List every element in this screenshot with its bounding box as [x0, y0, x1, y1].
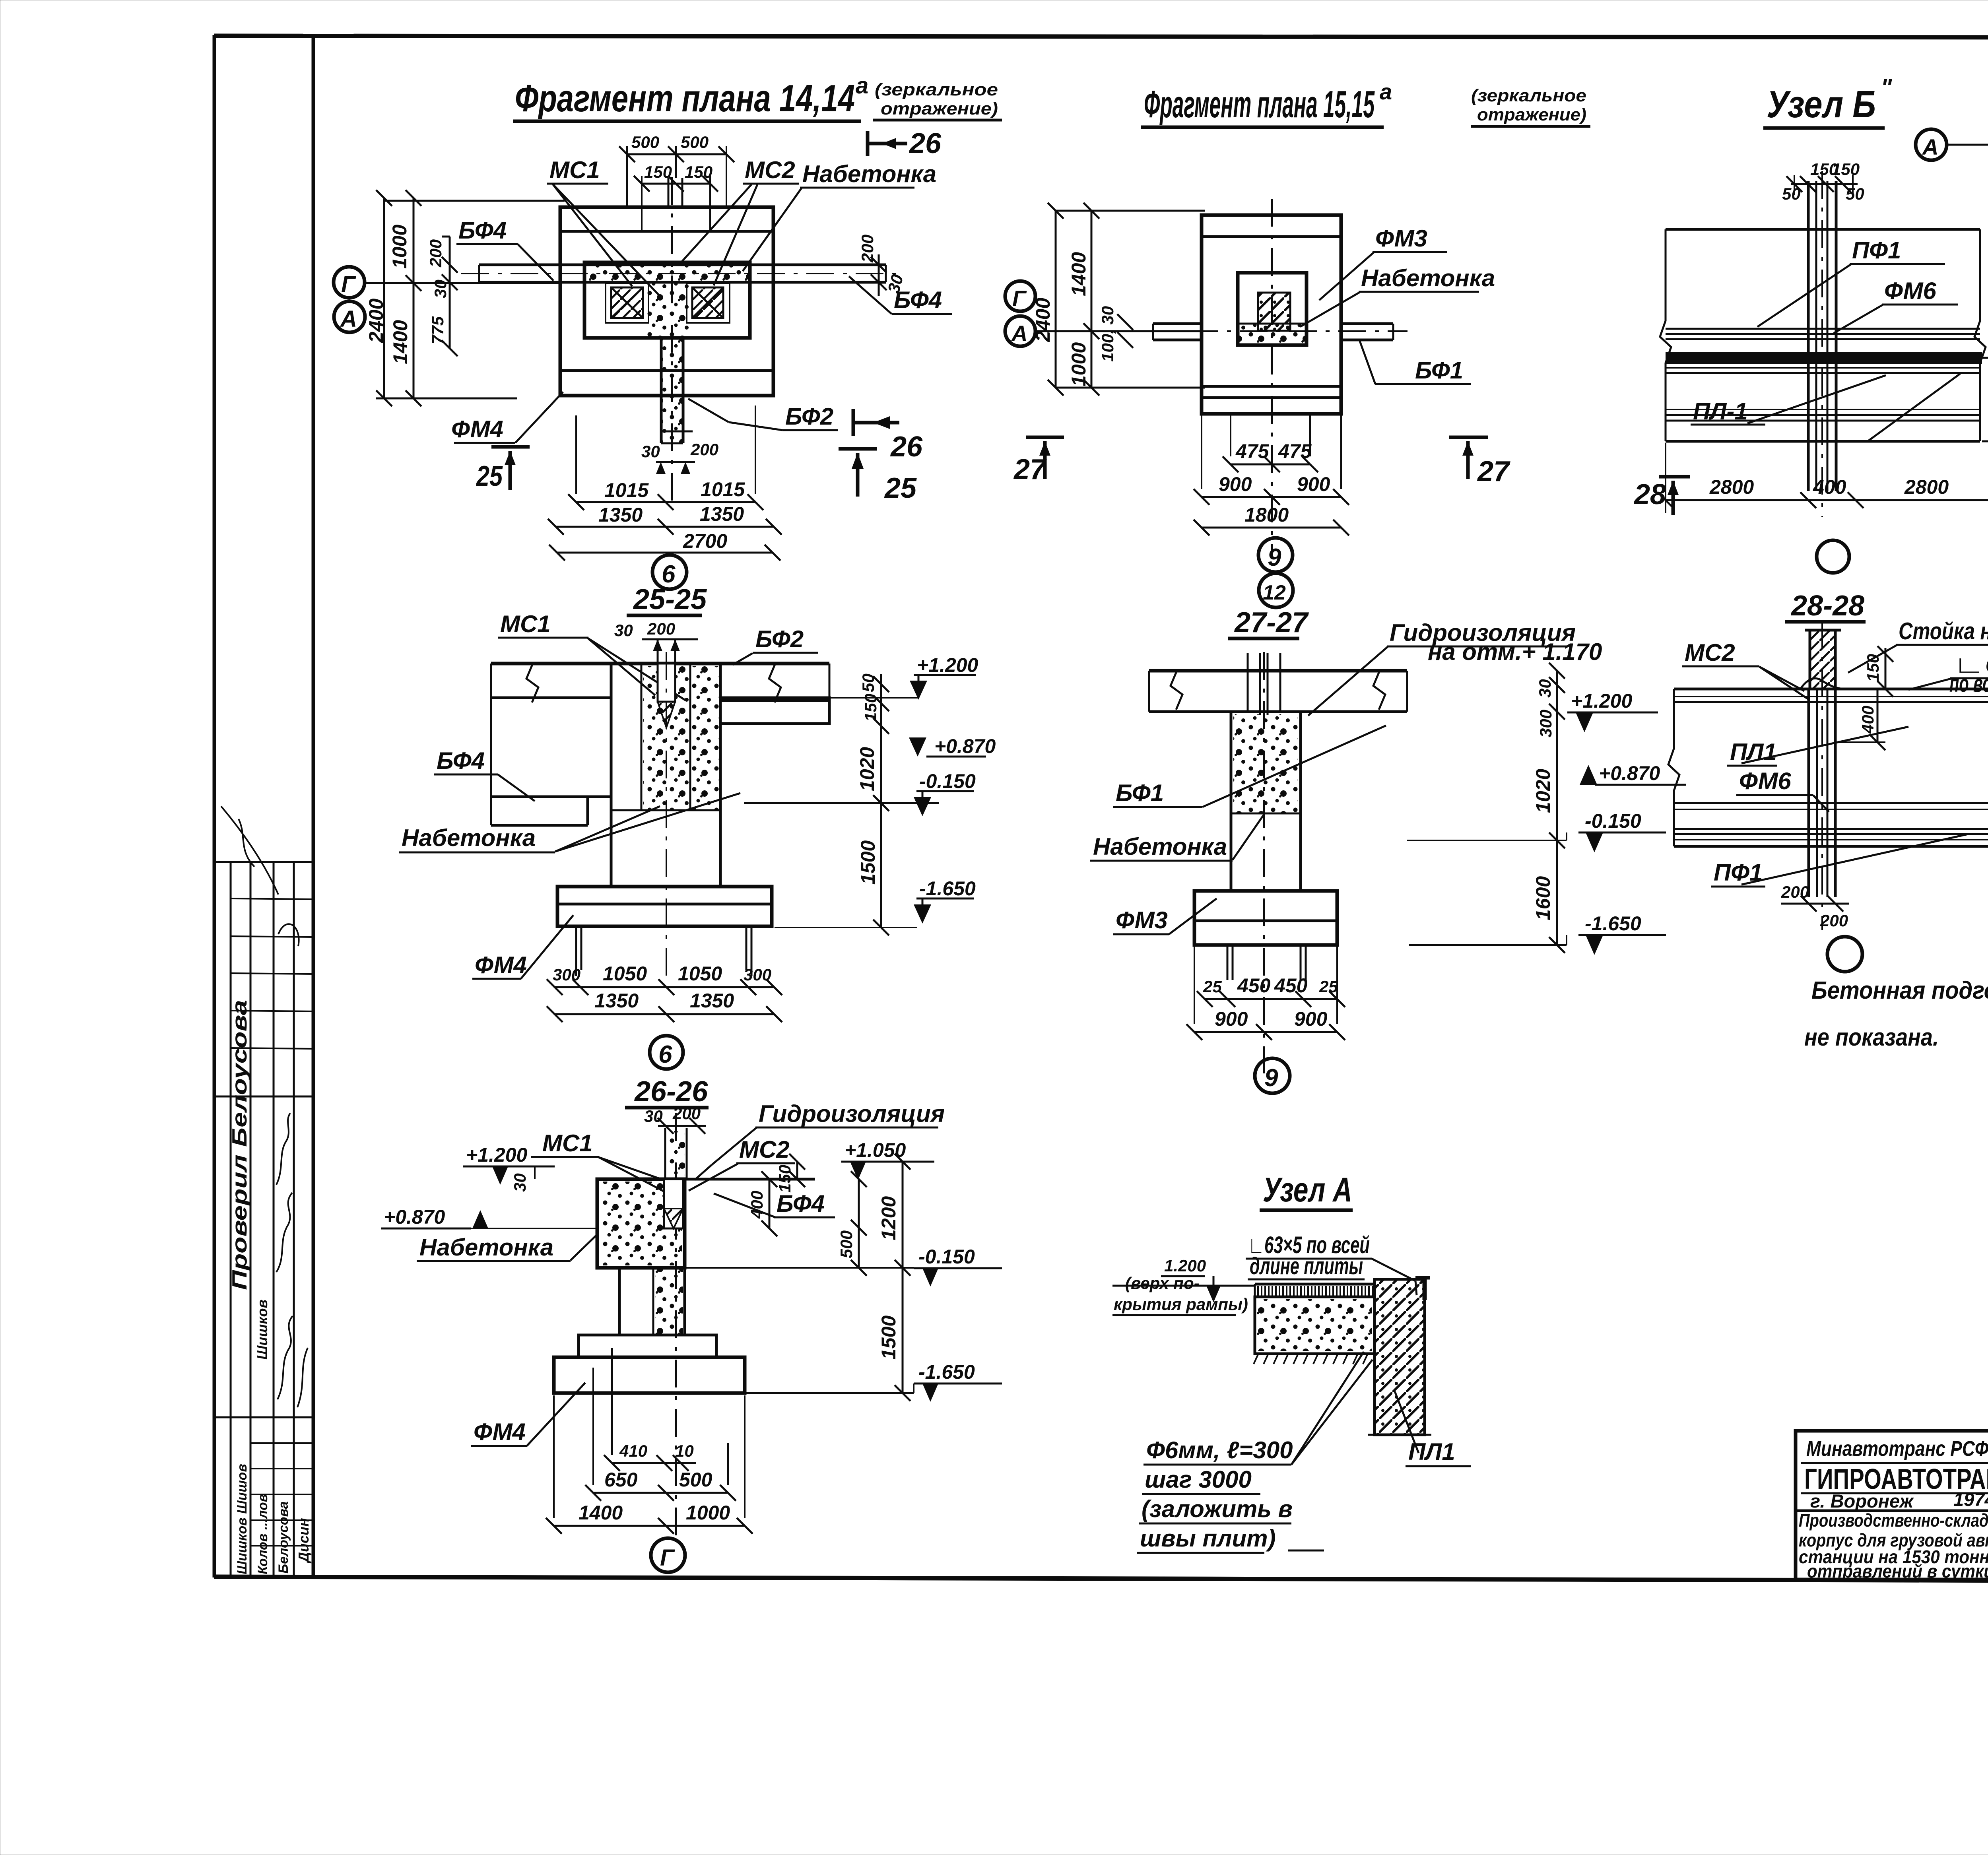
signatures squiggles — [276, 1113, 290, 1185]
svg-text:450: 450 — [1274, 974, 1308, 997]
svg-text:БФ2: БФ2 — [785, 403, 833, 430]
svg-text:ПЛ-1: ПЛ-1 — [1693, 398, 1748, 425]
svg-text:(заложить в: (заложить в — [1142, 1496, 1293, 1522]
frame top line — [214, 36, 1988, 38]
svg-text:1350: 1350 — [690, 990, 734, 1012]
svg-text:МС1: МС1 — [542, 1130, 593, 1156]
svg-text:30: 30 — [511, 1173, 529, 1192]
small dims near post — [1885, 648, 1887, 689]
svg-text:+1.200: +1.200 — [1571, 690, 1633, 712]
svg-text:1020: 1020 — [856, 747, 878, 791]
svg-text:1000: 1000 — [388, 225, 411, 269]
svg-text:БФ4: БФ4 — [458, 217, 507, 244]
section markers 27 — [1026, 436, 1064, 439]
right dim chains — [796, 1162, 798, 1179]
svg-text:25-25: 25-25 — [633, 584, 707, 615]
inner recess rect — [584, 262, 750, 338]
svg-text:500: 500 — [631, 133, 659, 151]
bottom dims — [555, 986, 774, 988]
main block — [597, 1178, 815, 1181]
right wall ПЛ1 — [1375, 1279, 1425, 1435]
svg-text:27-27: 27-27 — [1234, 607, 1309, 638]
svg-text:1400: 1400 — [1068, 252, 1090, 296]
svg-text:900: 900 — [1215, 1008, 1248, 1030]
svg-text:300: 300 — [553, 965, 580, 984]
svg-text:-0.150: -0.150 — [1585, 810, 1641, 832]
svg-text:9: 9 — [1268, 544, 1281, 571]
svg-text:150: 150 — [1832, 160, 1860, 179]
svg-text:200: 200 — [426, 239, 445, 268]
bottom dims 200/200 — [1781, 903, 1849, 905]
small left dims 200/30/775 — [449, 237, 451, 348]
svg-text:1500: 1500 — [857, 840, 879, 885]
svg-text:Набетонка: Набетонка — [802, 161, 936, 187]
bottom dims — [1205, 998, 1337, 1000]
svg-text:Дисин: Дисин — [295, 1518, 312, 1564]
concrete stipple T — [585, 264, 749, 283]
axis circle А — [1916, 129, 1947, 160]
bottom dims — [1666, 499, 1988, 501]
svg-text:50: 50 — [859, 673, 878, 692]
svg-text:-1.650: -1.650 — [1585, 912, 1641, 935]
svg-text:2400: 2400 — [365, 299, 387, 343]
svg-text:Колов ...лов: Колов ...лов — [255, 1494, 270, 1574]
svg-text:50: 50 — [1846, 184, 1864, 203]
svg-text:БФ2: БФ2 — [755, 626, 804, 652]
svg-text:1000: 1000 — [1068, 342, 1090, 386]
svg-text:900: 900 — [1294, 1008, 1328, 1030]
svg-text:(зеркальное: (зеркальное — [875, 80, 998, 99]
svg-text:Белоусова: Белоусова — [276, 1501, 291, 1574]
svg-text:1020: 1020 — [1532, 769, 1554, 813]
post (стойка) — [1810, 630, 1835, 689]
svg-text:25: 25 — [884, 472, 917, 504]
bottom dims — [612, 1462, 696, 1464]
svg-text:БФ4: БФ4 — [777, 1190, 825, 1217]
anchor channel in block — [664, 1179, 683, 1228]
plan outer slab rect — [560, 207, 773, 396]
column — [1807, 689, 1810, 897]
svg-text:50: 50 — [1782, 184, 1801, 203]
anchor pockets with hatch — [606, 283, 648, 323]
svg-text:2700: 2700 — [683, 530, 727, 552]
section marker 25 bottom-left — [491, 445, 530, 449]
pencil scrawl above table — [221, 806, 278, 895]
band rect — [1666, 228, 1980, 231]
svg-text:МС2: МС2 — [1685, 639, 1735, 666]
ground hatch below — [1254, 1354, 1368, 1364]
svg-text:26-26: 26-26 — [634, 1076, 708, 1108]
svg-text:27: 27 — [1013, 454, 1047, 485]
svg-text:Гидроизоляция: Гидроизоляция — [759, 1100, 945, 1127]
svg-text:+1.200: +1.200 — [917, 654, 978, 676]
svg-text:+1.200: +1.200 — [466, 1144, 528, 1166]
svg-text:1350: 1350 — [594, 990, 639, 1012]
slab band — [1674, 688, 1988, 691]
svg-text:не показана.: не показана. — [1804, 1024, 1939, 1051]
svg-text:ФМ4: ФМ4 — [451, 416, 503, 442]
corner angle — [1423, 1277, 1427, 1300]
svg-text:200: 200 — [1781, 883, 1809, 901]
svg-text:25: 25 — [1203, 977, 1222, 996]
svg-text:-0.150: -0.150 — [918, 1246, 975, 1268]
svg-text:27: 27 — [1477, 456, 1510, 487]
svg-text:1974г: 1974г — [1953, 1489, 1988, 1510]
hatched anchor block — [1258, 293, 1290, 331]
svg-text:150: 150 — [775, 1165, 794, 1193]
svg-text:А: А — [1922, 134, 1938, 159]
svg-text:1800: 1800 — [1244, 504, 1289, 526]
svg-text:+1.050: +1.050 — [845, 1139, 906, 1161]
column — [1230, 712, 1233, 891]
svg-text:Г: Г — [341, 272, 356, 297]
svg-text:отражение): отражение) — [1477, 105, 1586, 124]
svg-text:150: 150 — [1864, 654, 1882, 682]
svg-text:МС2: МС2 — [739, 1136, 790, 1163]
svg-text:ФМ6: ФМ6 — [1884, 277, 1937, 304]
svg-text:30: 30 — [431, 279, 450, 298]
svg-text:200: 200 — [858, 235, 877, 263]
svg-text:на отм.+ 1.170: на отм.+ 1.170 — [1428, 638, 1602, 665]
inner recess — [1238, 273, 1307, 345]
svg-text:1500: 1500 — [878, 1316, 900, 1360]
svg-text:ПФ1: ПФ1 — [1852, 237, 1901, 264]
frame left outer line — [213, 35, 216, 1578]
svg-text:26: 26 — [890, 431, 923, 463]
bottom dim rows — [576, 501, 755, 503]
svg-text:2800: 2800 — [1904, 476, 1949, 498]
slab — [1149, 669, 1407, 673]
axis circle 6 — [652, 555, 687, 589]
svg-text:-1.650: -1.650 — [918, 1361, 975, 1383]
svg-text:410: 410 — [619, 1442, 647, 1460]
svg-text:150: 150 — [644, 163, 672, 181]
svg-text:Бетонная подготовка под фун: Бетонная подготовка под фундаменты услов… — [1811, 977, 1988, 1004]
svg-text:900: 900 — [1297, 473, 1330, 495]
stem bottom dims 30/200 — [656, 461, 695, 463]
bottom circle — [1827, 937, 1862, 972]
svg-text:1200: 1200 — [878, 1196, 900, 1240]
top anchor stub — [668, 178, 670, 207]
svg-text:500: 500 — [679, 1469, 712, 1491]
frame inner margin line — [312, 37, 315, 1578]
svg-text:1350: 1350 — [700, 503, 744, 525]
right vertical dim chain — [880, 674, 882, 927]
svg-text:300: 300 — [744, 965, 771, 984]
bottom empty circle — [1817, 540, 1849, 573]
svg-text:отправлений в сутки: отправлений в сутки — [1807, 1561, 1988, 1581]
svg-text:25: 25 — [476, 460, 503, 492]
svg-text:ФМ6: ФМ6 — [1739, 768, 1792, 794]
frame bottom line — [214, 1577, 1988, 1581]
svg-text:2400: 2400 — [1032, 298, 1054, 342]
svg-text:200: 200 — [690, 440, 718, 459]
top dims — [1791, 183, 1858, 185]
section marker 25 bottom-right — [839, 447, 877, 451]
svg-text:Набетонка: Набетонка — [1361, 265, 1495, 291]
top dims 500/500 — [627, 153, 726, 155]
svg-text:30: 30 — [1536, 679, 1554, 698]
svg-text:А: А — [1011, 321, 1027, 346]
svg-text:Минавтотранс РСФСР: Минавтотранс РСФСР — [1806, 1437, 1988, 1461]
svg-text:1015: 1015 — [604, 479, 649, 501]
svg-text:500: 500 — [681, 133, 709, 151]
svg-text:30: 30 — [641, 442, 660, 461]
svg-text:БФ4: БФ4 — [437, 747, 485, 774]
svg-text:12: 12 — [1263, 581, 1286, 604]
stem БФ2 below — [660, 338, 663, 443]
svg-text:Проверил Белоусова: Проверил Белоусова — [228, 1000, 251, 1290]
svg-text:крытия рампы): крытия рампы) — [1114, 1295, 1248, 1314]
slab with vertical hatch screed — [1255, 1283, 1375, 1286]
left signature table — [214, 806, 313, 1577]
svg-text:БФ1: БФ1 — [1415, 357, 1463, 384]
left dims — [1055, 211, 1057, 388]
anchor stub through slab — [1247, 653, 1249, 712]
beam БФ1 through — [1153, 322, 1202, 325]
svg-text:650: 650 — [604, 1469, 638, 1491]
svg-text:(верх по-: (верх по- — [1125, 1274, 1200, 1292]
axis circles 9 / 12 — [1258, 538, 1293, 572]
svg-text:10: 10 — [675, 1442, 694, 1460]
section marker 26 top — [866, 131, 870, 156]
svg-text:Шишков Шишов: Шишков Шишов — [235, 1464, 250, 1574]
svg-text:400: 400 — [747, 1191, 766, 1219]
svg-text:475: 475 — [1235, 440, 1270, 462]
axis circles — [1005, 281, 1035, 311]
concrete block — [1255, 1297, 1375, 1354]
plan rect — [1202, 215, 1341, 414]
svg-text:1015: 1015 — [701, 478, 745, 501]
anchor stub above — [664, 1128, 666, 1179]
svg-text:30: 30 — [614, 621, 633, 640]
svg-text:": " — [1881, 74, 1893, 101]
left dim chains — [383, 198, 385, 398]
svg-text:1.200: 1.200 — [1164, 1256, 1206, 1275]
svg-text:6: 6 — [658, 1041, 672, 1068]
column — [610, 664, 613, 887]
svg-text:Шишков: Шишков — [254, 1300, 270, 1360]
floor layers — [1666, 328, 1980, 330]
svg-text:1050: 1050 — [678, 962, 722, 985]
beam lines through (БФ4) — [479, 264, 886, 266]
svg-text:28-28: 28-28 — [1790, 590, 1864, 622]
svg-text:+0.870: +0.870 — [384, 1206, 445, 1228]
svg-text:900: 900 — [1219, 473, 1252, 495]
right dim chain — [1556, 671, 1558, 945]
svg-text:1000: 1000 — [686, 1502, 730, 1524]
svg-text:30: 30 — [644, 1107, 663, 1125]
page frame — [214, 35, 1988, 1581]
foundation — [1194, 891, 1337, 945]
dims 150/150 — [642, 183, 710, 185]
title block — [1796, 1431, 1988, 1582]
svg-text:ФМ4: ФМ4 — [474, 1418, 526, 1445]
svg-text:450: 450 — [1237, 974, 1271, 997]
svg-text:150: 150 — [685, 163, 712, 181]
svg-text:МС2: МС2 — [745, 157, 795, 183]
svg-text:а: а — [856, 73, 868, 99]
column verticals — [1807, 181, 1810, 491]
bottom dims — [1231, 464, 1310, 466]
centerlines — [671, 177, 673, 501]
svg-text:1400: 1400 — [579, 1502, 623, 1524]
svg-text:БФ1: БФ1 — [1116, 780, 1164, 806]
svg-text:Узел Б: Узел Б — [1767, 83, 1876, 126]
svg-text:150: 150 — [861, 694, 880, 722]
svg-text:МС1: МС1 — [549, 157, 600, 183]
28 markers — [1659, 475, 1690, 479]
svg-text:475: 475 — [1278, 440, 1312, 462]
dowels below — [1227, 945, 1229, 980]
stem below — [618, 1268, 621, 1335]
svg-text:Набетонка: Набетонка — [1093, 833, 1227, 860]
svg-text:1400: 1400 — [389, 320, 412, 364]
svg-text:2800: 2800 — [1709, 476, 1754, 498]
svg-text:ФМ3: ФМ3 — [1116, 907, 1168, 933]
svg-text:26: 26 — [909, 128, 942, 159]
svg-text:1600: 1600 — [1532, 876, 1554, 920]
svg-text:ФМ4: ФМ4 — [475, 952, 527, 978]
svg-text:Набетонка: Набетонка — [402, 825, 536, 851]
svg-text:Узел А: Узел А — [1263, 1171, 1352, 1209]
right БФ2 beam cut — [720, 698, 829, 724]
svg-text:А: А — [340, 306, 357, 332]
svg-text:(зеркальное: (зеркальное — [1471, 86, 1586, 105]
svg-text:25: 25 — [1319, 977, 1338, 996]
svg-text:9: 9 — [1264, 1064, 1278, 1092]
svg-text:длине плиты: длине плиты — [1250, 1253, 1363, 1279]
foundation steps — [579, 1335, 716, 1357]
svg-text:Фрагмент плана 15,15: Фрагмент плана 15,15 — [1144, 83, 1375, 126]
axis circles — [334, 267, 365, 298]
svg-text:+0.870: +0.870 — [934, 735, 996, 757]
svg-text:Г: Г — [660, 1545, 675, 1571]
svg-text:Ф6мм, ℓ=300: Ф6мм, ℓ=300 — [1146, 1437, 1293, 1463]
svg-text:ФМ3: ФМ3 — [1375, 225, 1427, 252]
svg-text:500: 500 — [837, 1230, 856, 1258]
right small dims 200/30 — [878, 254, 880, 296]
svg-text:швы плит): швы плит) — [1140, 1525, 1276, 1552]
svg-text:400: 400 — [1858, 706, 1877, 734]
anchor channel — [658, 664, 675, 702]
svg-text:Производственно-складской: Производственно-складской — [1799, 1510, 1988, 1531]
svg-text:Стойка навеса: Стойка навеса — [1899, 618, 1988, 644]
svg-text:200: 200 — [1820, 911, 1848, 930]
centerlines — [1141, 330, 1408, 332]
svg-text:400: 400 — [1813, 476, 1846, 498]
floor slab — [491, 662, 829, 666]
svg-text:1350: 1350 — [598, 504, 643, 526]
svg-text:Фрагмент плана 14,14: Фрагмент плана 14,14 — [515, 77, 855, 120]
svg-text:775: 775 — [428, 316, 447, 344]
svg-text:-0.150: -0.150 — [919, 770, 976, 792]
svg-text:по всей длине: по всей длине — [1949, 670, 1988, 697]
svg-text:200: 200 — [647, 619, 675, 638]
svg-text:а: а — [1380, 79, 1392, 104]
svg-text:МС1: МС1 — [500, 611, 551, 637]
svg-text:отражение): отражение) — [881, 99, 998, 118]
svg-text:г. Воронеж: г. Воронеж — [1810, 1490, 1914, 1512]
svg-text:шаг 3000: шаг 3000 — [1145, 1466, 1252, 1493]
svg-text:-1.650: -1.650 — [919, 877, 976, 900]
section marker 26 right — [852, 409, 855, 436]
svg-text:300: 300 — [1536, 710, 1555, 737]
svg-text:+0.870: +0.870 — [1599, 762, 1660, 784]
svg-text:100, 30: 100, 30 — [1098, 306, 1117, 362]
svg-text:28: 28 — [1633, 479, 1666, 510]
svg-text:1050: 1050 — [603, 962, 647, 985]
left beam block БФ4 cut — [490, 664, 492, 825]
svg-text:Набетонка: Набетонка — [419, 1234, 553, 1261]
svg-text:Г: Г — [1012, 286, 1027, 311]
foundation — [557, 887, 772, 926]
